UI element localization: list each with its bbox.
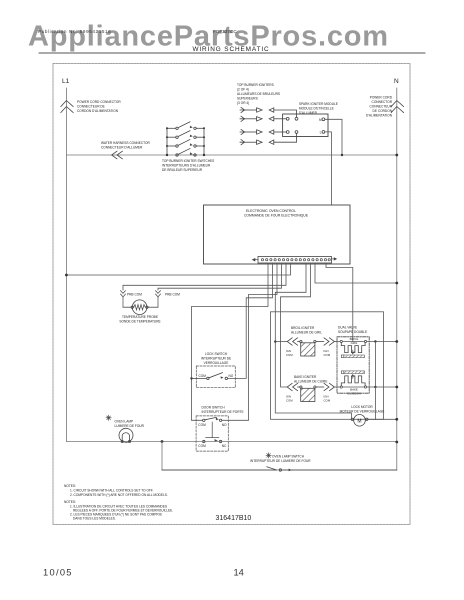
junction dot motor on N <box>395 418 398 421</box>
broil valve terminals <box>340 340 342 342</box>
svg-text:14: 14 <box>234 567 244 577</box>
notes block english <box>64 484 168 497</box>
dual valve label <box>338 326 367 335</box>
oven lamp switch arrow <box>289 469 292 472</box>
wire lamp switch drop <box>161 442 163 471</box>
svg-text:COM: COM <box>198 444 206 448</box>
svg-text:NC: NC <box>222 444 227 448</box>
power cord connector L1 label <box>77 100 121 113</box>
top burner igniter 4 <box>240 133 297 145</box>
temperature probe circle <box>132 300 147 315</box>
wire W3 strip to probe right <box>158 263 282 290</box>
svg-text:316417B10: 316417B10 <box>216 515 252 522</box>
electronic oven control label <box>244 209 309 218</box>
lock motor label <box>340 405 385 414</box>
wire spark module N to rail <box>325 119 342 155</box>
svg-text:MODULE D'ETINCELLE: MODULE D'ETINCELLE <box>299 107 334 111</box>
svg-text:L: L <box>320 130 322 134</box>
svg-text:OVEN LAMP SWITCH: OVEN LAMP SWITCH <box>272 455 305 459</box>
junction dot bake-vertical <box>374 386 376 388</box>
svg-text:OVEN LAMP: OVEN LAMP <box>115 420 134 424</box>
wire W8 strip to broil igniter and lock motor <box>275 263 351 418</box>
top burner igniter switches bank <box>167 128 204 155</box>
svg-text:ELECTRONIC OVEN CONTROL: ELECTRONIC OVEN CONTROL <box>246 209 296 213</box>
junction dot rail at N <box>395 154 398 157</box>
svg-text:D'ALIMENTATION: D'ALIMENTATION <box>366 114 393 118</box>
oven lamp switch contacts <box>162 467 397 471</box>
junction dot lamp switch tap <box>161 440 164 443</box>
oven lamp switch star <box>266 453 271 458</box>
svg-text:COM: COM <box>286 398 293 402</box>
svg-text:SUPERIEURS: SUPERIEURS <box>237 97 258 101</box>
burner switch row 2 <box>167 131 204 139</box>
svg-text:DE CORDON: DE CORDON <box>373 109 393 113</box>
svg-text:SONDE DE TEMPERATURE: SONDE DE TEMPERATURE <box>119 320 160 324</box>
top burner igniter 3 <box>240 129 286 134</box>
junction dot W6 at lock COM <box>190 377 192 379</box>
burner switch row 4 <box>176 149 196 157</box>
svg-text:2. COMPONENTS WITH (*) ARE NO: 2. COMPONENTS WITH (*) ARE NOT OFFERED O… <box>70 493 168 497</box>
wire L1 drop <box>65 88 67 442</box>
door switch label <box>202 406 244 415</box>
broil igniter unit <box>287 338 334 356</box>
svg-text:COM: COM <box>324 353 331 357</box>
door switch box <box>196 416 228 451</box>
top burner igniters label <box>237 83 280 105</box>
temperature probe leads <box>123 306 158 308</box>
svg-text:LOCK MOTOR: LOCK MOTOR <box>351 405 373 409</box>
svg-text:DOOR SWITCH: DOOR SWITCH <box>202 406 226 410</box>
door switch top arrow <box>216 418 219 421</box>
svg-text:CORDON D'ALIMENTATION: CORDON D'ALIMENTATION <box>77 109 119 113</box>
wire N rail <box>162 88 397 470</box>
oven lamp symbol <box>119 428 133 442</box>
svg-text:Publication No: 5995421516: Publication No: 5995421516 <box>38 29 111 34</box>
broil igniter IGN COM labels <box>286 349 331 357</box>
bake igniter unit <box>287 383 334 401</box>
svg-text:DE BRULEUR SUPERIEUR: DE BRULEUR SUPERIEUR <box>162 168 203 172</box>
svg-text:BAKE IGNITER: BAKE IGNITER <box>294 375 317 379</box>
svg-text:CUISSON: CUISSON <box>347 392 360 396</box>
svg-text:M: M <box>357 419 361 425</box>
broil valve arrow <box>352 350 354 354</box>
svg-text:INTERRUPTEUR DE: INTERRUPTEUR DE <box>201 357 231 361</box>
temperature probe label <box>119 315 160 324</box>
igniter assembly enclosure box <box>271 312 384 420</box>
svg-text:LUMIERE DE FOUR: LUMIERE DE FOUR <box>115 424 145 428</box>
svg-text:INTERRUPTEUR DE PORTE: INTERRUPTEUR DE PORTE <box>202 410 244 414</box>
wire W5 strip to lock switch NO <box>228 263 273 378</box>
junction dot bottom rail at N <box>395 441 398 444</box>
door switch bottom arrow <box>215 439 218 442</box>
wire W9 strip to bake igniter <box>281 263 311 387</box>
burner switch row 3 <box>167 140 204 148</box>
wire spark module L to EOC <box>325 132 332 205</box>
top burner igniter switches label <box>162 159 214 172</box>
svg-text:SOUPAPE DOUBLE: SOUPAPE DOUBLE <box>338 330 367 334</box>
EOC fanout wires <box>66 263 396 420</box>
svg-text:ALLUMEUR DE CUIRE: ALLUMEUR DE CUIRE <box>294 380 327 384</box>
wire W4 strip to door switch NO <box>222 263 277 420</box>
svg-text:POWER CORD: POWER CORD <box>370 96 393 100</box>
EOC terminal strip right arrow <box>332 258 337 260</box>
oven lamp star <box>106 415 111 420</box>
svg-text:LOCK SWITCH: LOCK SWITCH <box>205 352 228 356</box>
spark igniter module box U1 <box>283 114 328 137</box>
power cord connector N chevrons <box>391 101 403 113</box>
svg-text:NO: NO <box>229 374 234 378</box>
door switch top pole <box>203 417 222 421</box>
svg-text:SPARK IGNITER MODULE: SPARK IGNITER MODULE <box>299 102 338 106</box>
junction dot W7 on N <box>395 282 398 285</box>
svg-text:CONNECTEUR D'ALLUMER: CONNECTEUR D'ALLUMER <box>101 146 143 150</box>
svg-text:WIRING SCHEMATIC: WIRING SCHEMATIC <box>192 46 269 53</box>
PRB COM connector left chevrons <box>121 291 126 308</box>
svg-text:CONNECTOR: CONNECTOR <box>372 100 393 104</box>
svg-text:COM: COM <box>199 374 207 378</box>
header rule <box>39 52 425 54</box>
svg-text:(2 OF 4): (2 OF 4) <box>237 88 249 92</box>
svg-text:VERROUILLAGE: VERROUILLAGE <box>204 361 229 365</box>
bake valve arrow <box>352 375 354 379</box>
wire bake row <box>334 386 396 388</box>
door switch link <box>206 422 219 438</box>
wire lock motor to N <box>368 418 397 420</box>
top burner igniter 2 <box>240 116 286 121</box>
bake valve hatched bar <box>341 371 344 374</box>
svg-text:N: N <box>319 118 322 122</box>
bake solenoid <box>341 376 365 386</box>
svg-text:NOTES:: NOTES: <box>64 500 76 504</box>
svg-text:TOP BURNER IGNITERS: TOP BURNER IGNITERS <box>237 83 274 87</box>
junction dot left bus on rail <box>166 154 168 156</box>
svg-text:COM: COM <box>324 398 331 402</box>
svg-text:DUAL VALVE: DUAL VALVE <box>338 326 357 330</box>
wire harness connector chevrons <box>112 151 123 159</box>
svg-text:FGF337GC: FGF337GC <box>213 29 237 34</box>
bake igniter label <box>294 375 327 384</box>
oven lamp switch label <box>250 455 311 464</box>
broil igniter label <box>291 326 322 335</box>
temperature probe resistor zigzag <box>134 305 145 310</box>
lock switch contacts <box>192 373 228 380</box>
wire top rail L1 <box>66 154 396 156</box>
svg-text:ALLUMEURS DE BRULEURS: ALLUMEURS DE BRULEURS <box>237 92 280 96</box>
lock motor M1 <box>351 415 368 427</box>
EOC terminal circles <box>261 259 330 261</box>
spark module terminals <box>286 117 324 133</box>
svg-text:PRB COM: PRB COM <box>127 293 142 297</box>
door switch bottom pole <box>203 440 222 442</box>
svg-text:1. CIRCUIT SHOWN WITH ALL CON: 1. CIRCUIT SHOWN WITH ALL CONTROLS SET T… <box>70 489 154 493</box>
svg-text:NOTES:: NOTES: <box>64 484 76 488</box>
bake valve terminals <box>340 386 342 388</box>
junction dot right bus on rail <box>203 154 205 156</box>
svg-text:L1: L1 <box>62 78 70 85</box>
junction dot W8 at broil row <box>274 340 276 342</box>
EOC terminal strip left arrow <box>252 258 258 261</box>
wire W10 strip to dual valve <box>326 263 353 342</box>
notes block french <box>64 500 173 521</box>
svg-text:DANS TOUS LES MODELES.: DANS TOUS LES MODELES. <box>73 517 116 521</box>
lock switch box <box>196 366 235 388</box>
svg-text:INTERRUPTEURS D'ALLUMEUR: INTERRUPTEURS D'ALLUMEUR <box>162 164 211 168</box>
svg-text:COMMANDE DE FOUR ELECTRONIQUE: COMMANDE DE FOUR ELECTRONIQUE <box>244 214 309 218</box>
svg-text:MOTEUR DE VERROUILLAGE: MOTEUR DE VERROUILLAGE <box>340 410 385 414</box>
bottom rail <box>66 441 396 443</box>
svg-text:COM: COM <box>198 423 206 427</box>
frame border <box>53 64 410 525</box>
svg-text:TOP BURNER IGNITER SWITCHES: TOP BURNER IGNITER SWITCHES <box>162 159 214 163</box>
svg-text:CONNECTEUR: CONNECTEUR <box>370 105 393 109</box>
bake igniter IGN COM labels <box>286 395 331 403</box>
dual valve box <box>337 337 369 393</box>
wire valve output vertical <box>374 342 376 420</box>
spark igniter module label <box>299 102 338 115</box>
lock switch label <box>201 352 231 365</box>
svg-text:INTERRUPTEUR DE LUMIERE DE FOU: INTERRUPTEUR DE LUMIERE DE FOUR <box>250 459 311 463</box>
svg-text:COM: COM <box>286 353 293 357</box>
broil valve hatched bar <box>341 355 344 358</box>
svg-text:CONNECTEUR DE: CONNECTEUR DE <box>77 105 105 109</box>
oven lamp label <box>115 420 145 429</box>
electronic oven control box <box>204 205 351 264</box>
svg-text:NO: NO <box>222 423 227 427</box>
power cord connector N label <box>366 96 393 118</box>
svg-text:POWER CORD CONNECTOR: POWER CORD CONNECTOR <box>77 100 121 104</box>
svg-text:PRB COM: PRB COM <box>165 293 180 297</box>
lock switch arrow <box>221 376 224 379</box>
junction dot broil-vertical <box>374 340 376 342</box>
wire W1 strip to L1 rail <box>66 263 290 275</box>
svg-text:BROIL IGNITER: BROIL IGNITER <box>291 326 315 330</box>
svg-text:(3 OR 4): (3 OR 4) <box>237 101 249 105</box>
svg-text:ALLUMEUR DE GRIL: ALLUMEUR DE GRIL <box>291 331 322 335</box>
wire harness connector label <box>101 141 151 150</box>
svg-text:TEMPERATURE PROBE: TEMPERATURE PROBE <box>122 315 158 319</box>
EOC terminal strip <box>258 257 332 264</box>
burner switch row 1 <box>167 122 204 130</box>
PRB COM connector right chevrons <box>156 291 161 308</box>
wire W6 strip to lock COM and door COM <box>192 263 269 420</box>
temperature probe terminals <box>131 306 133 308</box>
junction dot broil on N <box>395 340 398 343</box>
wire broil row <box>275 341 397 343</box>
svg-text:WATER HARNESS CONNECTOR: WATER HARNESS CONNECTOR <box>101 141 151 145</box>
power cord connector L1 chevrons <box>61 101 73 113</box>
svg-text:N: N <box>394 78 399 85</box>
wire W2 strip to probe left <box>123 263 286 290</box>
svg-text:10/05: 10/05 <box>43 567 73 577</box>
wire W7 strip to N rail <box>315 263 397 283</box>
junction dot bake on N <box>395 386 398 389</box>
junction dot module N wire on rail <box>341 154 343 156</box>
junction dots switch bank buses <box>166 127 205 147</box>
broil solenoid <box>341 343 365 353</box>
junction dot W1 on L1 <box>65 274 68 277</box>
top burner igniter 1 <box>240 107 297 117</box>
